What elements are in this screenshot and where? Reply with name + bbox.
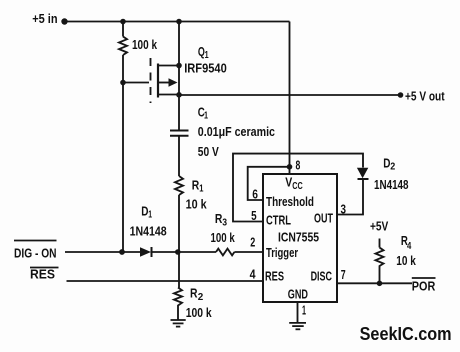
svg-text:R: R <box>192 179 200 193</box>
svg-text:1: 1 <box>199 183 203 195</box>
svg-text:100 k: 100 k <box>211 231 235 245</box>
svg-text:+5 in: +5 in <box>32 12 57 26</box>
svg-text:3: 3 <box>222 217 227 229</box>
svg-text:8: 8 <box>296 158 301 172</box>
svg-text:DISC: DISC <box>311 270 332 284</box>
svg-text:3: 3 <box>341 203 347 217</box>
svg-text:4: 4 <box>407 240 411 252</box>
svg-text:1: 1 <box>204 110 208 122</box>
svg-text:10 k: 10 k <box>186 198 207 212</box>
svg-text:2: 2 <box>250 236 255 250</box>
svg-text:0.01μF ceramic: 0.01μF ceramic <box>198 125 275 139</box>
svg-text:IRF9540: IRF9540 <box>184 62 227 76</box>
svg-text:CTRL: CTRL <box>266 214 291 228</box>
svg-text:1: 1 <box>302 304 306 318</box>
svg-text:6: 6 <box>252 188 258 202</box>
svg-text:GND: GND <box>288 288 308 302</box>
svg-text:1: 1 <box>148 209 152 221</box>
svg-text:ICN7555: ICN7555 <box>278 231 319 245</box>
svg-text:+5V: +5V <box>370 220 389 234</box>
svg-text:Threshold: Threshold <box>266 195 314 209</box>
svg-text:2: 2 <box>390 160 395 172</box>
svg-text:R: R <box>190 287 198 301</box>
svg-text:1N4148: 1N4148 <box>374 178 409 192</box>
svg-text:5: 5 <box>251 209 257 223</box>
svg-text:DIG - ON: DIG - ON <box>14 246 57 260</box>
svg-text:7: 7 <box>341 268 346 282</box>
svg-text:4: 4 <box>250 268 256 282</box>
svg-text:Trigger: Trigger <box>266 246 298 260</box>
svg-text:1N4148: 1N4148 <box>130 225 167 239</box>
svg-text:RES: RES <box>265 270 284 284</box>
svg-text:100 k: 100 k <box>186 306 212 320</box>
svg-text:SeekIC.com: SeekIC.com <box>360 323 452 344</box>
svg-text:50 V: 50 V <box>198 145 220 159</box>
svg-text:2: 2 <box>198 291 204 303</box>
svg-text:1: 1 <box>205 49 209 61</box>
svg-text:+5 V out: +5 V out <box>405 90 445 104</box>
svg-text:RES: RES <box>30 267 55 281</box>
svg-text:100 k: 100 k <box>132 38 157 52</box>
svg-text:10 k: 10 k <box>396 254 416 268</box>
svg-text:POR: POR <box>412 280 436 294</box>
svg-text:OUT: OUT <box>314 212 333 226</box>
svg-text:CC: CC <box>292 181 303 192</box>
